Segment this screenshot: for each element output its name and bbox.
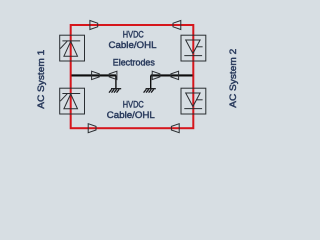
svg-text:Electrodes: Electrodes: [113, 58, 155, 68]
arrow on bottom cable, left (points right): [88, 124, 96, 133]
ground (left electrode): [109, 89, 121, 93]
arrow on bottom cable, right (points left): [171, 124, 179, 133]
svg-text:HVDC: HVDC: [123, 99, 144, 109]
arrow on right electrode line (points right): [152, 71, 160, 79]
svg-text:HVDC: HVDC: [123, 29, 144, 39]
arrow on top cable, left (points right): [90, 21, 98, 30]
ground (right electrode): [144, 89, 156, 93]
arrow on left electrode line (points left): [109, 71, 117, 79]
svg-text:Cable/OHL: Cable/OHL: [109, 40, 157, 50]
arrow on right electrode line (points left): [171, 71, 179, 79]
converter U2 (AC system 1, pole 2) box: [60, 88, 85, 114]
wire: right electrode drop: [150, 75, 152, 88]
arrow on left electrode line (points right): [92, 71, 100, 79]
svg-text:AC System 1: AC System 1: [36, 50, 46, 109]
svg-text:AC System 2: AC System 2: [228, 49, 238, 108]
converter U4 (AC system 2, pole 2) box: [181, 88, 206, 114]
converter U1 (AC system 1, pole 1) box: [60, 35, 85, 61]
svg-text:Cable/OHL: Cable/OHL: [107, 110, 155, 120]
wire: red DC loop (HVDC cable rectangle): [71, 25, 194, 128]
converter U3 (AC system 2, pole 1) box: [181, 35, 206, 61]
wire: left electrode drop: [115, 75, 117, 88]
arrow on top cable, right (points left): [173, 21, 181, 30]
wire: left electrode line: [72, 74, 117, 76]
wire: right electrode line: [151, 74, 193, 76]
